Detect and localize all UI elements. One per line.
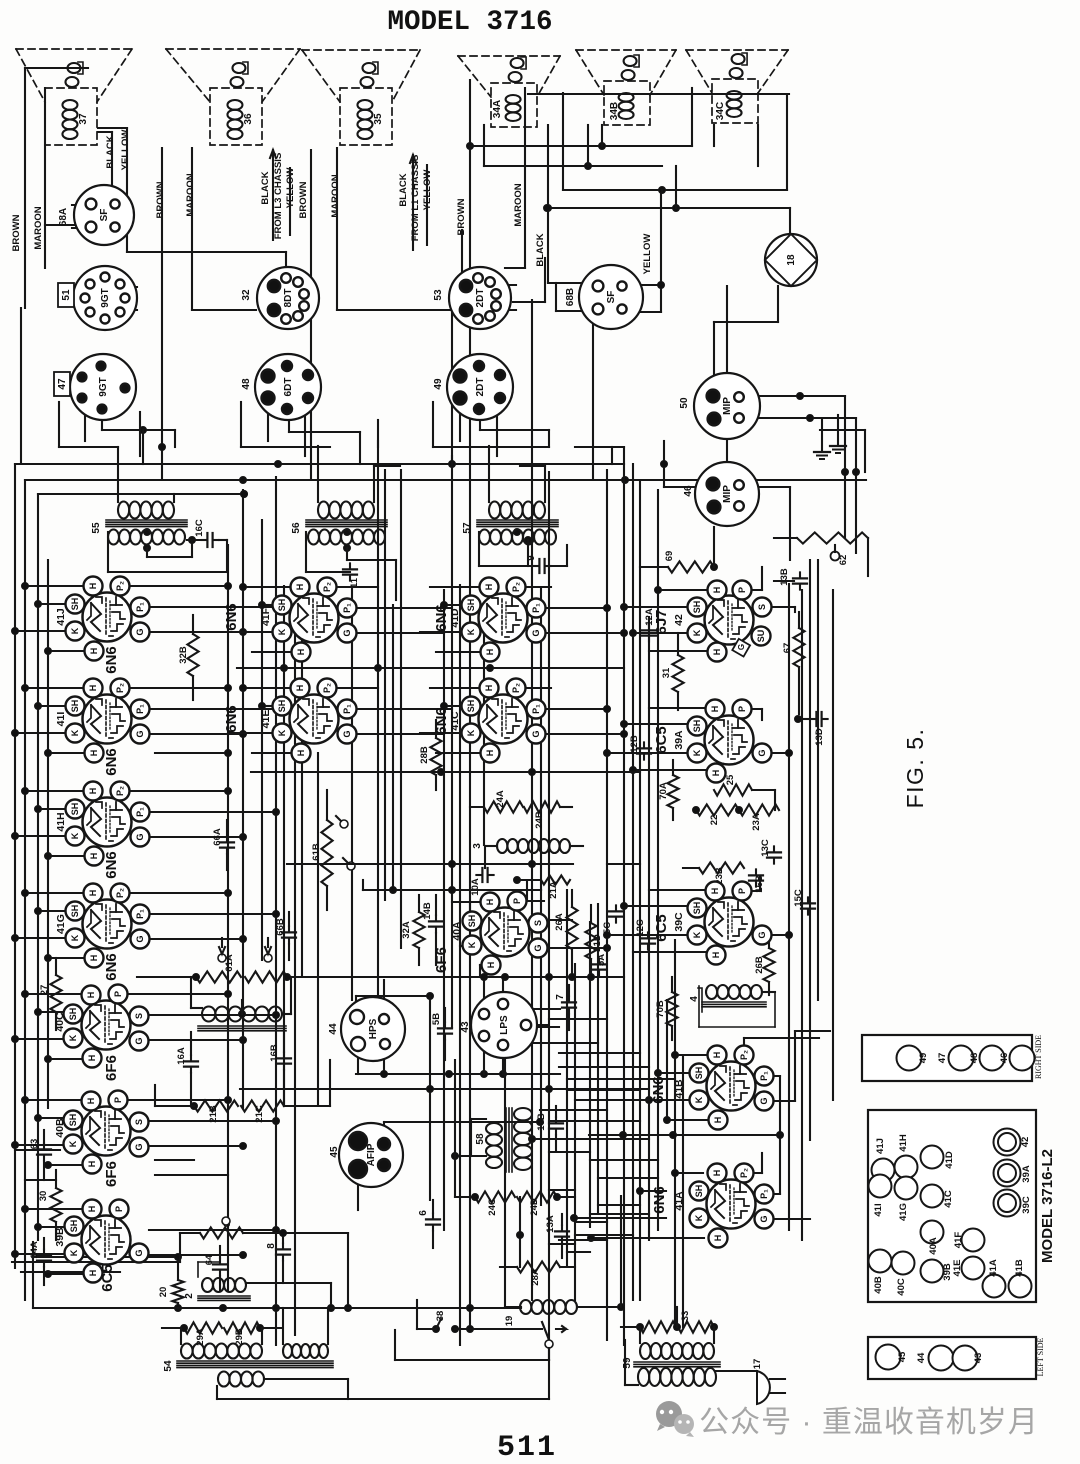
svg-text:SH: SH [70, 803, 80, 816]
wire [590, 1213, 649, 1215]
svg-text:K: K [68, 1034, 78, 1041]
svg-text:P: P [113, 991, 123, 997]
svg-text:40C: 40C [896, 1278, 907, 1296]
svg-text:6J7: 6J7 [653, 609, 670, 634]
svg-text:H: H [485, 750, 495, 757]
svg-text:41G: 41G [55, 914, 67, 934]
svg-text:47: 47 [57, 378, 68, 390]
svg-text:21C: 21C [254, 1105, 265, 1123]
panel tube 41A [983, 1259, 1006, 1297]
speaker 34B [576, 50, 676, 125]
svg-text:41D: 41D [449, 608, 461, 628]
wire [575, 1234, 633, 1236]
svg-text:66A: 66A [212, 828, 223, 846]
svg-text:38: 38 [435, 1311, 446, 1322]
svg-text:48: 48 [241, 378, 252, 390]
svg-text:G: G [533, 944, 543, 951]
svg-text:H: H [88, 788, 98, 795]
wires pins 41H [12, 788, 280, 860]
svg-text:50: 50 [679, 397, 690, 409]
svg-text:P₂: P₂ [511, 683, 521, 693]
svg-text:25: 25 [725, 774, 736, 785]
svg-text:26B: 26B [754, 956, 765, 974]
resistor 23A [736, 804, 780, 830]
IF transformer 55 [91, 502, 187, 545]
tube 41B (6N6) [650, 1046, 774, 1130]
wire [822, 415, 838, 450]
wire [430, 996, 548, 1200]
svg-text:S: S [533, 920, 543, 926]
svg-text:G: G [759, 1215, 769, 1222]
wire label BROWN [11, 214, 22, 251]
wire [351, 587, 353, 1000]
wire [726, 286, 728, 461]
wire [0, 0, 1, 1]
coil 19 [504, 1300, 625, 1326]
capacitor 14A [29, 1238, 51, 1285]
wire [598, 1204, 640, 1206]
svg-text:21D: 21D [592, 934, 603, 952]
svg-text:41I: 41I [873, 1203, 884, 1216]
svg-text:17: 17 [752, 1359, 763, 1370]
wire [479, 532, 567, 566]
svg-text:67: 67 [782, 643, 793, 654]
panel socket 43 [953, 1346, 985, 1371]
panel tube 41J [872, 1138, 895, 1181]
panel socket 46 [999, 1046, 1035, 1071]
bus H2 y464 [15, 461, 624, 468]
svg-text:SH: SH [694, 1067, 704, 1080]
transformer 59 [622, 1327, 757, 1386]
svg-text:20: 20 [158, 1287, 169, 1298]
svg-text:6C5: 6C5 [653, 726, 670, 754]
svg-text:SF: SF [606, 291, 617, 304]
svg-text:13B: 13B [779, 568, 790, 586]
svg-text:6N6: 6N6 [651, 1186, 668, 1214]
resistor 24D [517, 1191, 575, 1215]
panel socket 44 [916, 1346, 954, 1371]
svg-text:K: K [70, 934, 80, 941]
wire [567, 1251, 590, 1253]
wires pins 41J [12, 583, 280, 655]
svg-text:3: 3 [472, 843, 483, 849]
vibrator 18 [765, 234, 817, 286]
svg-text:SF: SF [99, 209, 110, 222]
wire [531, 300, 533, 1300]
svg-text:41C: 41C [449, 711, 461, 731]
svg-text:41B: 41B [1014, 1259, 1025, 1277]
wire label MAROON [185, 173, 196, 216]
resistor 28A [500, 1261, 575, 1285]
svg-text:37: 37 [78, 113, 89, 125]
transformer 58v [452, 1108, 641, 1172]
wire [567, 1078, 675, 1080]
wire [301, 605, 303, 977]
capacitor 13D [795, 712, 828, 746]
svg-text:SH: SH [694, 1185, 704, 1198]
wire [620, 1196, 622, 1307]
svg-text:41F: 41F [953, 1232, 964, 1249]
plug 17 [752, 1359, 785, 1404]
wire [469, 146, 471, 1329]
capacitor 16B [749, 869, 765, 892]
wire [470, 88, 692, 150]
grid cap 42 [732, 639, 750, 657]
svg-text:6F6: 6F6 [103, 1055, 120, 1081]
wires pins 41I [12, 685, 280, 757]
wire [33, 1257, 521, 1312]
wire [664, 487, 790, 560]
wire [451, 456, 453, 1027]
wire [545, 125, 590, 311]
capacitor 12C [635, 919, 655, 949]
wire [192, 148, 256, 310]
capacitor 13B [774, 568, 807, 589]
svg-text:H: H [86, 1098, 96, 1105]
svg-text:H: H [713, 1117, 723, 1124]
wire [85, 412, 497, 456]
svg-text:P₂: P₂ [511, 582, 521, 592]
svg-text:32B: 32B [178, 646, 189, 664]
svg-text:LPS: LPS [499, 1015, 510, 1035]
tube 39A (6C5) [653, 700, 772, 783]
svg-text:6N6: 6N6 [223, 705, 240, 733]
svg-text:K: K [466, 628, 476, 635]
coil 61A block [191, 977, 291, 1031]
svg-text:H: H [711, 770, 721, 777]
resistor 21C [241, 1060, 330, 1123]
svg-text:40A: 40A [451, 921, 463, 941]
svg-text:G: G [342, 730, 352, 737]
wire [540, 587, 542, 1205]
svg-text:40A: 40A [928, 1237, 939, 1255]
svg-text:41H: 41H [898, 1134, 909, 1152]
wire [241, 402, 549, 464]
panel tube 39C [994, 1190, 1033, 1217]
svg-text:G: G [531, 730, 541, 737]
title MODEL 3716 [387, 7, 552, 38]
wire [459, 585, 461, 1345]
wire label BLACK [398, 173, 409, 206]
svg-text:H: H [485, 899, 495, 906]
svg-text:36: 36 [243, 113, 254, 125]
resistors 33 [621, 1307, 718, 1333]
svg-text:5A: 5A [596, 954, 607, 966]
svg-text:P₂: P₂ [739, 1050, 749, 1060]
panel tube 41I [869, 1175, 892, 1217]
wire [15, 1150, 60, 1180]
svg-text:P₂: P₂ [115, 581, 125, 591]
wire [513, 258, 545, 302]
socket 68B SF [565, 265, 643, 329]
svg-text:H: H [87, 1206, 97, 1213]
capacitor 7 [555, 985, 576, 1030]
svg-text:P: P [737, 888, 747, 894]
resistor 26A [554, 890, 578, 977]
wires pins 40C [12, 991, 280, 1063]
tube 41H (6N6) [55, 782, 150, 879]
svg-text:6C5: 6C5 [653, 914, 670, 942]
wire [283, 586, 285, 1106]
tube 41E (6N6) [223, 679, 357, 763]
svg-text:H: H [712, 1170, 722, 1177]
bus right v x789 [788, 584, 790, 1230]
svg-text:16B: 16B [269, 1044, 280, 1062]
svg-text:43: 43 [973, 1353, 984, 1364]
wire [72, 205, 91, 228]
resistor 32B [178, 615, 199, 700]
svg-text:SH: SH [68, 1114, 78, 1127]
svg-text:41B: 41B [673, 1079, 685, 1099]
svg-text:FROM L3 CHASSIS: FROM L3 CHASSIS [273, 153, 284, 240]
svg-text:SH: SH [68, 1008, 78, 1021]
svg-text:41D: 41D [944, 1151, 955, 1169]
tube 41J (6N6) [55, 577, 150, 674]
svg-text:44: 44 [916, 1352, 927, 1363]
svg-text:9GT: 9GT [100, 288, 111, 307]
svg-text:64: 64 [204, 1254, 215, 1265]
svg-text:45: 45 [329, 1146, 340, 1158]
capacitor 63 [29, 1130, 51, 1180]
svg-text:K: K [692, 931, 702, 938]
svg-text:42: 42 [1020, 1137, 1031, 1148]
svg-text:P₂: P₂ [115, 683, 125, 693]
capacitor 8 [266, 1230, 290, 1284]
capacitor 64 [204, 1246, 227, 1290]
wire [520, 1042, 598, 1044]
wire [666, 1000, 668, 1121]
svg-text:BLACK: BLACK [105, 135, 116, 168]
svg-text:22: 22 [709, 815, 720, 826]
wire [227, 545, 229, 1290]
svg-text:MAROON: MAROON [185, 173, 196, 216]
wire label YELLOW [285, 168, 296, 209]
svg-text:MODEL 3716-L2: MODEL 3716-L2 [1039, 1149, 1056, 1263]
wire [566, 890, 568, 1267]
svg-text:6C5: 6C5 [99, 1264, 116, 1292]
svg-text:55: 55 [91, 522, 102, 534]
svg-text:FROM L1 CHASSIS: FROM L1 CHASSIS [410, 155, 421, 242]
svg-text:6N6: 6N6 [223, 603, 240, 631]
svg-text:H: H [86, 992, 96, 999]
svg-text:H: H [89, 853, 99, 860]
svg-text:6DT: 6DT [283, 378, 294, 397]
svg-text:H: H [88, 685, 98, 692]
resistor 21B [191, 1100, 239, 1122]
wire [155, 750, 232, 757]
resistor 24C [455, 1191, 515, 1215]
wire [602, 125, 676, 208]
svg-text:41C: 41C [943, 1190, 954, 1208]
resistor 31 [661, 633, 684, 710]
coil near 54 [283, 1308, 328, 1358]
svg-text:P₁: P₁ [759, 1189, 769, 1199]
wire [544, 205, 791, 235]
wires pins 42 [621, 567, 796, 651]
tube 41F (6N6) [223, 578, 357, 662]
socket 46 MIP [683, 462, 759, 526]
svg-text:H: H [712, 649, 722, 656]
svg-text:H: H [88, 890, 98, 897]
wire [590, 1159, 658, 1161]
svg-text:SH: SH [466, 700, 476, 713]
svg-text:G: G [134, 1249, 144, 1256]
wire [559, 1239, 607, 1241]
panel tube 41B [1009, 1259, 1032, 1297]
resistor 60 [180, 1217, 352, 1312]
wire [155, 1160, 228, 1175]
svg-text:P₁: P₁ [135, 807, 145, 817]
svg-text:34C: 34C [715, 102, 726, 120]
svg-text:70B: 70B [655, 1000, 666, 1018]
svg-text:69: 69 [664, 551, 675, 562]
wire [144, 529, 521, 536]
svg-text:H: H [712, 587, 722, 594]
panel tube 42 [994, 1129, 1032, 1156]
wire [98, 132, 112, 188]
svg-text:P₂: P₂ [322, 582, 332, 592]
wire [127, 252, 286, 268]
wire [337, 148, 452, 310]
svg-text:H: H [486, 962, 496, 969]
svg-text:K: K [692, 629, 702, 636]
svg-text:P₂: P₂ [115, 786, 125, 796]
panel tube 41H [895, 1134, 918, 1178]
svg-text:62: 62 [838, 555, 849, 566]
wire [549, 1151, 590, 1153]
resistor 26B [754, 935, 775, 995]
wire [294, 605, 296, 1335]
svg-text:43: 43 [460, 1021, 471, 1033]
svg-text:H: H [711, 952, 721, 959]
bus left v1 [14, 464, 16, 1268]
wires pins 41E [228, 685, 452, 754]
svg-text:32A: 32A [401, 921, 412, 939]
svg-text:SU: SU [756, 630, 766, 643]
wire [452, 230, 462, 464]
svg-text:H: H [88, 583, 98, 590]
wire [520, 1008, 560, 1010]
potentiometer 62 [774, 532, 868, 576]
panel LEFT SIDE box [868, 1337, 1045, 1379]
wires pins 41D [420, 587, 628, 652]
svg-text:46: 46 [999, 1053, 1010, 1064]
tube 39B (6C5) [54, 1200, 149, 1292]
panel socket 49 [897, 1046, 930, 1071]
svg-text:P₁: P₁ [135, 704, 145, 714]
capacitor 6 [418, 1200, 440, 1248]
socket 49 2DT [433, 354, 513, 420]
socket 32 8DT [241, 267, 319, 329]
tube 42 (6J7) [653, 581, 772, 662]
svg-text:SH: SH [467, 915, 477, 928]
wire [377, 441, 379, 1027]
resistor 24A [484, 790, 523, 812]
svg-text:G: G [135, 935, 145, 942]
panel tube 41C [921, 1185, 955, 1208]
wire [0, 0, 1, 1]
capacitor 16B2 [269, 1030, 291, 1106]
bus center v x624 [623, 447, 625, 1345]
resistor 29B [224, 1322, 282, 1345]
svg-text:12B: 12B [629, 735, 640, 753]
wires pins 39C [604, 878, 793, 952]
svg-text:9GT: 9GT [98, 377, 109, 396]
svg-text:6: 6 [418, 1210, 429, 1216]
socket 44 HPS [328, 997, 405, 1061]
svg-text:H: H [87, 1055, 97, 1062]
wire [563, 93, 787, 194]
figure label FIG. 5. [902, 728, 928, 809]
svg-text:BROWN: BROWN [298, 181, 309, 218]
wire [356, 1044, 560, 1078]
capacitor 5C [602, 905, 623, 934]
svg-text:K: K [277, 729, 287, 736]
wire label BLACK [535, 233, 546, 266]
svg-text:15C: 15C [793, 889, 804, 907]
svg-text:5C: 5C [602, 922, 613, 934]
svg-text:BROWN: BROWN [11, 214, 22, 251]
svg-text:P₁: P₁ [531, 603, 541, 613]
wire [270, 150, 276, 240]
resistor 29A [162, 1322, 222, 1345]
svg-text:2: 2 [184, 1293, 195, 1299]
svg-text:BLACK: BLACK [398, 173, 409, 206]
wire [699, 986, 775, 1027]
svg-text:P₁: P₁ [759, 1071, 769, 1081]
wire [505, 88, 525, 268]
svg-text:5B: 5B [431, 1013, 442, 1025]
wires pins 40B [12, 1097, 280, 1169]
bus right v x833 [832, 590, 834, 1100]
svg-text:HPS: HPS [368, 1018, 379, 1039]
tube 40B (6F6) [54, 1091, 149, 1187]
svg-text:G: G [135, 730, 145, 737]
wire [306, 532, 396, 600]
svg-text:41A: 41A [673, 1191, 685, 1211]
svg-text:K: K [68, 1140, 78, 1147]
wire [593, 312, 612, 480]
bus left v2 [24, 480, 26, 1300]
speaker 36 [166, 49, 300, 145]
resistor 23B [683, 862, 744, 884]
svg-text:26A: 26A [554, 913, 565, 931]
svg-text:6N6: 6N6 [433, 707, 450, 735]
svg-text:46: 46 [683, 485, 694, 497]
panel tube 41G [895, 1177, 918, 1221]
svg-text:6N6: 6N6 [103, 646, 120, 674]
IF transformer 57 [462, 502, 558, 545]
svg-text:H: H [710, 888, 720, 895]
coil 3 [472, 839, 583, 868]
socket 51 9GT [58, 266, 137, 330]
wire [549, 1018, 607, 1020]
socket 43 LPS [460, 992, 537, 1058]
wire [287, 863, 385, 865]
wire [289, 168, 291, 235]
capacitor 16A [176, 1032, 198, 1106]
wire [159, 148, 166, 480]
svg-text:AFIP: AFIP [366, 1143, 377, 1166]
svg-text:41J: 41J [875, 1138, 886, 1154]
wire [155, 1085, 194, 1106]
svg-text:K: K [70, 832, 80, 839]
wire [661, 441, 668, 487]
wire [362, 880, 364, 890]
wire [317, 753, 319, 1106]
svg-text:27: 27 [39, 985, 50, 996]
svg-text:SH: SH [466, 599, 476, 612]
